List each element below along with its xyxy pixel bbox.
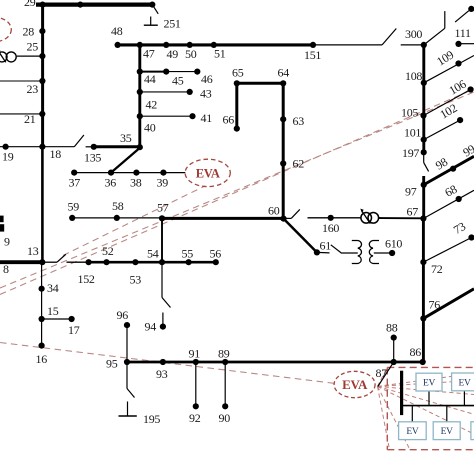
svg-text:62: 62 <box>293 157 305 171</box>
svg-text:61: 61 <box>320 239 332 253</box>
svg-text:50: 50 <box>185 47 197 61</box>
svg-text:9: 9 <box>4 235 10 249</box>
svg-text:95: 95 <box>106 357 118 371</box>
svg-text:55: 55 <box>182 247 194 261</box>
svg-text:65: 65 <box>232 66 244 80</box>
svg-text:35: 35 <box>120 131 132 145</box>
svg-text:63: 63 <box>293 114 305 128</box>
svg-text:195: 195 <box>143 412 160 426</box>
svg-text:111: 111 <box>455 26 472 40</box>
svg-text:EVA: EVA <box>342 377 368 392</box>
svg-text:43: 43 <box>200 87 212 101</box>
svg-text:51: 51 <box>214 47 226 61</box>
svg-text:18: 18 <box>50 147 62 161</box>
svg-text:160: 160 <box>322 221 339 235</box>
svg-text:610: 610 <box>385 237 402 251</box>
svg-text:13: 13 <box>27 244 39 258</box>
svg-text:EV: EV <box>441 427 454 437</box>
svg-text:38: 38 <box>130 176 142 190</box>
svg-text:21: 21 <box>24 112 36 126</box>
svg-text:87: 87 <box>376 366 388 380</box>
svg-text:197: 197 <box>402 146 419 160</box>
svg-text:72: 72 <box>431 262 443 276</box>
svg-text:54: 54 <box>147 247 159 261</box>
svg-text:17: 17 <box>68 323 80 337</box>
svg-text:58: 58 <box>112 199 124 213</box>
svg-text:25: 25 <box>27 40 39 54</box>
svg-text:135: 135 <box>84 151 101 165</box>
svg-text:152: 152 <box>78 272 95 286</box>
svg-text:EV: EV <box>459 378 472 388</box>
svg-text:56: 56 <box>210 247 222 261</box>
svg-text:15: 15 <box>47 304 59 318</box>
svg-text:EV: EV <box>423 379 436 389</box>
svg-text:66: 66 <box>223 113 235 127</box>
svg-text:57: 57 <box>157 201 169 215</box>
svg-text:91: 91 <box>189 347 201 361</box>
svg-text:76: 76 <box>429 298 441 312</box>
svg-text:28: 28 <box>23 25 35 39</box>
svg-text:36: 36 <box>105 176 117 190</box>
svg-text:37: 37 <box>69 176 81 190</box>
svg-text:88: 88 <box>386 321 398 335</box>
svg-text:16: 16 <box>36 352 48 366</box>
svg-text:47: 47 <box>143 47 155 61</box>
svg-text:89: 89 <box>218 347 230 361</box>
svg-text:39: 39 <box>157 176 169 190</box>
svg-text:40: 40 <box>144 121 156 135</box>
svg-text:64: 64 <box>278 66 290 80</box>
svg-text:251: 251 <box>164 17 181 31</box>
svg-text:105: 105 <box>401 106 418 120</box>
svg-text:EVA: EVA <box>196 167 220 181</box>
svg-text:97: 97 <box>405 185 417 199</box>
svg-text:60: 60 <box>268 204 280 218</box>
svg-text:101: 101 <box>404 126 421 140</box>
svg-text:19: 19 <box>2 150 14 164</box>
svg-text:48: 48 <box>111 24 123 38</box>
svg-text:45: 45 <box>172 74 184 88</box>
svg-text:44: 44 <box>144 72 156 86</box>
svg-text:53: 53 <box>130 273 142 287</box>
svg-text:90: 90 <box>219 411 231 425</box>
svg-text:59: 59 <box>68 200 80 214</box>
svg-text:23: 23 <box>27 82 39 96</box>
svg-text:46: 46 <box>201 72 213 86</box>
svg-text:41: 41 <box>201 111 213 125</box>
svg-text:94: 94 <box>145 320 157 334</box>
svg-text:49: 49 <box>167 47 179 61</box>
svg-text:300: 300 <box>405 27 422 41</box>
svg-text:EV: EV <box>406 427 419 437</box>
svg-text:93: 93 <box>156 367 168 381</box>
svg-text:92: 92 <box>189 411 201 425</box>
svg-text:67: 67 <box>407 205 419 219</box>
svg-text:86: 86 <box>410 345 422 359</box>
svg-text:42: 42 <box>146 98 158 112</box>
svg-text:8: 8 <box>3 262 9 276</box>
svg-text:108: 108 <box>405 69 422 83</box>
svg-text:151: 151 <box>304 48 321 62</box>
svg-text:52: 52 <box>102 244 114 258</box>
svg-text:34: 34 <box>47 281 59 295</box>
svg-text:96: 96 <box>117 308 129 322</box>
svg-text:29: 29 <box>24 0 36 9</box>
